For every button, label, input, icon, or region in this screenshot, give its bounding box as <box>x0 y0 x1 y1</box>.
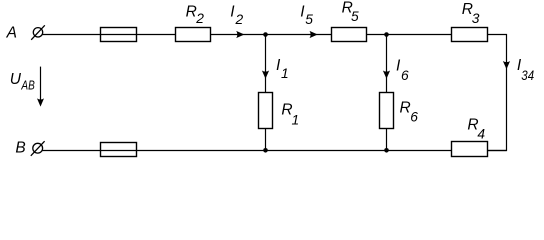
current arrow I34 <box>503 61 510 69</box>
terminal B <box>31 141 45 156</box>
wire: R3 to right corner and down to R4 <box>488 35 507 151</box>
node D (junction dot) <box>384 32 389 37</box>
svg-text:AB: AB <box>21 77 35 92</box>
current arrow I2 <box>236 31 244 38</box>
wire: R4 to right corner <box>488 150 507 152</box>
svg-text:3: 3 <box>472 11 480 26</box>
wire: R5 to R3 (node D on the way) <box>367 34 452 36</box>
svg-text:R: R <box>400 100 411 117</box>
wire: terminal A to top fuse <box>42 34 100 36</box>
label U_AB <box>10 71 35 92</box>
label R5 <box>342 0 359 24</box>
label I2 <box>230 4 243 28</box>
terminal A <box>31 25 45 40</box>
wire: branch 2 from node D down to R6 <box>386 35 388 93</box>
current arrow I6 <box>383 71 390 79</box>
wire: fuse to R4 (nodes E,F on the way) <box>137 150 452 152</box>
label R1 <box>281 102 299 128</box>
label R3 <box>462 1 480 26</box>
svg-text:B: B <box>15 140 25 157</box>
svg-text:4: 4 <box>477 127 485 142</box>
label I6 <box>396 58 409 83</box>
svg-text:U: U <box>10 71 22 88</box>
resistor R2 <box>176 28 211 42</box>
label R2 <box>186 4 205 27</box>
current arrow I1 <box>262 71 269 79</box>
svg-text:6: 6 <box>401 68 409 83</box>
resistor R4 <box>452 142 488 157</box>
label R6 <box>400 100 419 125</box>
svg-text:6: 6 <box>410 109 418 124</box>
wire: fuse to R2 <box>137 34 176 36</box>
label R4 <box>467 116 485 141</box>
wire: R2 to node C <box>211 34 266 36</box>
resistor R6 <box>380 93 394 129</box>
resistor R3 <box>452 28 488 42</box>
current arrow I5 <box>310 31 318 38</box>
svg-text:2: 2 <box>195 11 204 26</box>
node F (junction dot) <box>384 148 389 153</box>
label I1 <box>276 57 289 81</box>
resistor R1 <box>259 93 273 129</box>
node C (junction dot) <box>263 32 268 37</box>
svg-text:1: 1 <box>292 113 300 128</box>
svg-text:34: 34 <box>521 68 534 83</box>
svg-text:R: R <box>186 4 197 21</box>
svg-text:1: 1 <box>281 66 289 81</box>
svg-text:5: 5 <box>305 12 313 27</box>
resistor R5 <box>332 28 367 42</box>
fuse (top line) <box>101 28 137 42</box>
svg-text:5: 5 <box>351 9 359 24</box>
node E (junction dot) <box>263 148 268 153</box>
svg-text:2: 2 <box>235 12 244 27</box>
label I5 <box>300 3 313 27</box>
wire: R6 to bottom node F <box>386 129 388 151</box>
svg-text:A: A <box>6 24 17 41</box>
label I34 <box>517 57 534 83</box>
voltage arrow U_AB <box>37 67 44 107</box>
wire: R1 to bottom node E <box>265 129 267 151</box>
fuse (bottom line) <box>101 143 137 157</box>
wire: node C to R5 <box>266 34 332 36</box>
wire: branch 1 from node C down to R1 <box>265 35 267 93</box>
wire: terminal B to bottom fuse <box>42 150 100 152</box>
